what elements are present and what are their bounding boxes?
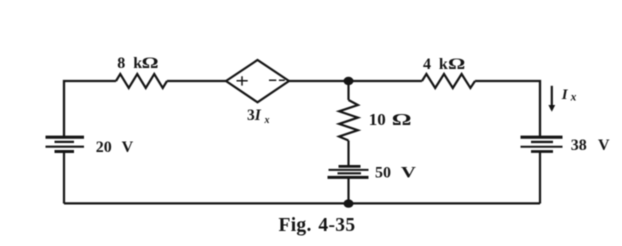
label 38 V (571, 137, 610, 154)
svg-text:38V: 38V (571, 137, 610, 154)
svg-text:Ω: Ω (448, 55, 465, 73)
wire right rail lower segment (539, 152, 541, 204)
caption Fig. 4-35 (279, 215, 356, 236)
label 20 V (96, 139, 134, 156)
plus sign inside source (237, 76, 248, 85)
resistor R3 10 Ohm vertical zigzag (339, 100, 358, 141)
label 3Ix of dependent source (247, 107, 270, 126)
minus sign inside source (269, 79, 285, 81)
svg-text:Ω: Ω (392, 110, 412, 129)
label Ix (561, 87, 577, 103)
resistor R2 4 kOhm zigzag (422, 74, 475, 88)
svg-text:3I: 3I (247, 107, 262, 124)
wire bottom rail (64, 202, 540, 204)
label 4 kOhm (423, 55, 465, 73)
svg-text:I: I (561, 87, 569, 103)
svg-text:20V: 20V (96, 139, 134, 156)
svg-text:Ω: Ω (142, 54, 159, 72)
wire middle branch node to R3 (347, 81, 349, 100)
node A junction dot top (344, 77, 354, 85)
battery V3 38V plates (521, 137, 563, 151)
svg-text:x: x (264, 115, 270, 126)
node B junction dot bottom (344, 199, 354, 207)
battery V1 20V plates (46, 137, 85, 151)
battery V2 50V plates (328, 166, 369, 177)
svg-text:8k: 8k (117, 55, 142, 72)
wire left rail lower segment (63, 151, 65, 203)
svg-text:10: 10 (369, 110, 386, 129)
wire between R3 and battery V2 (347, 141, 349, 167)
svg-text:4k: 4k (423, 56, 448, 73)
label 8 kOhm (117, 54, 158, 72)
wire top rail left segment (64, 81, 116, 137)
svg-text:x: x (570, 92, 577, 104)
svg-text:Fig. 4-35: Fig. 4-35 (279, 215, 356, 236)
svg-text:V: V (401, 164, 417, 182)
wire top rail right segment (475, 81, 540, 137)
current arrow Ix (548, 86, 555, 112)
label 50 V (375, 164, 417, 182)
label 10 Ohm (369, 110, 412, 129)
svg-text:50: 50 (375, 165, 391, 182)
wire between source and top node (289, 80, 349, 82)
dependent source U1 diamond (226, 60, 289, 102)
wire top rail node to R2 (349, 80, 423, 82)
wire between R1 and dependent source (167, 80, 226, 82)
wire battery V2 to bottom node (347, 177, 349, 203)
resistor R1 8 kOhm zigzag (116, 74, 167, 88)
